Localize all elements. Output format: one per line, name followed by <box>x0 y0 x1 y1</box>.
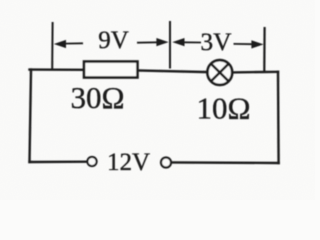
svg-text:30Ω: 30Ω <box>70 80 124 115</box>
svg-text:9V: 9V <box>98 27 129 54</box>
tick left <box>51 22 53 70</box>
resistor 30Ω <box>84 62 138 78</box>
wire top left segment <box>30 68 85 71</box>
svg-text:10Ω: 10Ω <box>196 90 250 125</box>
battery 12V right terminal <box>161 158 171 168</box>
wire lamp-to-corner segment <box>232 71 278 74</box>
tick middle <box>169 21 171 69</box>
wire right vertical <box>277 72 280 163</box>
svg-text:3V: 3V <box>200 27 232 56</box>
wire resistor-to-lamp segment <box>138 70 209 72</box>
arrow 9V left <box>54 40 83 48</box>
lamp 10Ω <box>207 60 232 85</box>
wire bottom left segment <box>30 160 88 163</box>
arrow 3V left <box>172 38 201 46</box>
svg-text:12V: 12V <box>107 149 150 176</box>
arrow 3V right <box>234 40 264 48</box>
wire bottom right segment <box>171 161 278 164</box>
tick right <box>263 27 266 71</box>
arrow 9V right <box>137 38 169 46</box>
wire left vertical <box>30 70 32 162</box>
battery 12V left terminal <box>87 157 96 166</box>
